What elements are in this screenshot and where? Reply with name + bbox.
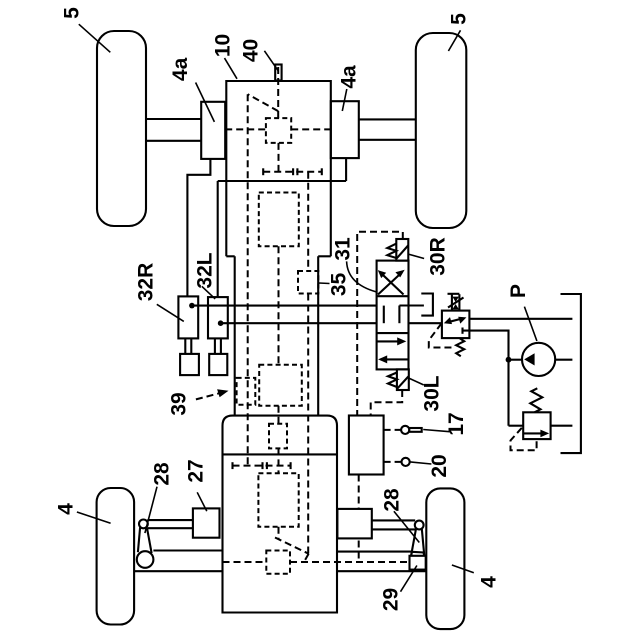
wire relief to tank bbox=[551, 425, 573, 427]
svg-text:10: 10 bbox=[211, 34, 234, 57]
relief valve spring bbox=[530, 388, 542, 412]
valve crossed-arrows position bbox=[378, 270, 405, 295]
rear axle right (wire) bbox=[337, 552, 426, 572]
spring of 30L bbox=[388, 373, 397, 388]
center shaft dashed bbox=[278, 143, 280, 172]
label 32L bbox=[194, 252, 217, 299]
svg-text:30L: 30L bbox=[421, 375, 444, 411]
flow valve adjuster symbol bbox=[448, 294, 464, 311]
rear axle dashed centerline bbox=[223, 561, 410, 563]
pilot signal wire 31 to solenoid 30R (dashed) bbox=[357, 232, 403, 416]
relief valve bbox=[523, 412, 550, 439]
wheel 4 rear-left bbox=[97, 488, 135, 625]
svg-text:4a: 4a bbox=[169, 57, 192, 81]
pto shaft dashed continue bbox=[307, 294, 309, 554]
wire controller to lever (dashed) bbox=[384, 429, 402, 431]
pump P bbox=[522, 343, 555, 376]
front axle shaft left (wire) bbox=[146, 119, 201, 141]
svg-text:20: 20 bbox=[428, 454, 451, 477]
front axle case 4a left bbox=[201, 102, 225, 159]
svg-text:4: 4 bbox=[478, 576, 501, 588]
pilot signal wire to solenoid 30L (dashed) bbox=[371, 390, 403, 416]
label 4 rear-left bbox=[55, 503, 111, 523]
shaft dashed bbox=[278, 448, 280, 473]
wire junction to relief bbox=[509, 425, 524, 427]
label 40 bbox=[240, 39, 279, 71]
shaft dashed into housing bbox=[278, 406, 280, 424]
solenoid 30R bbox=[396, 239, 408, 261]
front differential gear (dashed square) bbox=[266, 118, 291, 143]
steering cylinder 32L bbox=[208, 297, 228, 375]
label 5 front-left bbox=[61, 7, 111, 52]
front axle shaft right (wire) bbox=[359, 119, 416, 139]
center shaft dashed continue bbox=[278, 246, 280, 364]
kingpin circle left bbox=[137, 551, 154, 568]
wire controller to sensor (dashed) bbox=[384, 461, 402, 463]
svg-text:4a: 4a bbox=[338, 65, 361, 89]
flow valve pilot line (dashed) bbox=[429, 323, 452, 347]
svg-text:31: 31 bbox=[332, 237, 355, 261]
link member 29 bbox=[411, 552, 424, 556]
svg-text:35: 35 bbox=[328, 273, 351, 297]
sensor 20 bbox=[402, 458, 410, 466]
tank bracket bbox=[561, 294, 581, 453]
label 31 bbox=[332, 237, 377, 292]
svg-text:32L: 32L bbox=[194, 252, 217, 288]
directional valve 30 body bbox=[377, 261, 409, 370]
step from 4a left to pipe bbox=[187, 158, 210, 296]
rear axle housing bbox=[223, 416, 338, 613]
front axle case 4a right bbox=[331, 101, 359, 158]
valve closed-centre position symbols bbox=[384, 306, 424, 324]
label 28 right bbox=[381, 488, 420, 542]
blocked port symbol (bracket) bbox=[421, 294, 433, 316]
relief valve pilot (dashed) bbox=[511, 428, 537, 451]
right pto shaft dashed bbox=[307, 172, 309, 271]
knuckle link 28 right bbox=[411, 521, 424, 556]
small gear box (dashed) bbox=[269, 424, 287, 449]
rear gear box (dashed) bbox=[237, 378, 256, 405]
solenoid 30L bbox=[397, 369, 409, 390]
svg-text:5: 5 bbox=[448, 13, 471, 25]
label 4 rear-right bbox=[452, 565, 501, 588]
label 39 with dashed arrow bbox=[168, 389, 229, 415]
wire controller to rear steering (dashed) bbox=[358, 475, 360, 563]
shaft dashed below diff bbox=[278, 527, 280, 539]
hydraulic line A (wire 32R to valve) bbox=[192, 305, 384, 307]
label 17 bbox=[423, 412, 468, 435]
label 30R bbox=[408, 237, 449, 276]
spring of 30R bbox=[387, 244, 396, 258]
rear clutch (large dashed rect) bbox=[259, 365, 302, 406]
label 4a left bbox=[169, 57, 214, 121]
svg-text:27: 27 bbox=[185, 459, 208, 482]
svg-text:28: 28 bbox=[381, 488, 404, 512]
flow valve spring bbox=[456, 338, 464, 356]
svg-text:28: 28 bbox=[151, 462, 174, 486]
valve parallel-arrows position bbox=[378, 337, 409, 363]
rear steering cylinder 27 left end bbox=[193, 508, 220, 537]
label 28 left bbox=[145, 462, 174, 533]
svg-text:39: 39 bbox=[168, 392, 191, 415]
flow control valve bbox=[442, 311, 470, 339]
rear bevel shaft line with ticks bbox=[233, 462, 291, 469]
wire pump to junction bbox=[509, 359, 523, 361]
clutch box 35 (dashed) bbox=[298, 271, 318, 294]
rear cylinder rod right (wire) bbox=[372, 520, 415, 529]
diagonal shaft link (dashed) bbox=[275, 538, 309, 554]
lever switch 17 bbox=[401, 426, 422, 434]
label 20 bbox=[409, 454, 451, 477]
svg-text:40: 40 bbox=[240, 39, 263, 62]
label 35 bbox=[319, 273, 351, 297]
shift lever mount 40 bbox=[275, 65, 281, 81]
label 32R bbox=[135, 263, 184, 322]
gear unit (large dashed rect) bbox=[259, 193, 299, 247]
steering cylinder 32R bbox=[178, 296, 199, 375]
label 27 bbox=[185, 459, 208, 511]
rear small gear (dashed box) bbox=[266, 551, 290, 574]
controller unit bbox=[349, 416, 384, 475]
rear cylinder rod left (wire) bbox=[147, 520, 193, 528]
transmission case 10 outline bbox=[226, 81, 330, 416]
svg-text:30R: 30R bbox=[427, 237, 450, 276]
wire flow valve outlet to pump junction bbox=[463, 331, 509, 426]
svg-text:32R: 32R bbox=[135, 263, 158, 302]
hydraulic line B (wire 32L to flow valve) bbox=[221, 322, 442, 324]
label 29 bbox=[380, 566, 417, 612]
wire pump to tank bbox=[555, 359, 572, 361]
pipe to cylinder 32L (wire) bbox=[217, 181, 219, 297]
node junction bbox=[506, 357, 512, 363]
rear axle left (wire) bbox=[135, 551, 223, 572]
case flange line bbox=[218, 180, 346, 182]
internal gear shaft (dashed Z) bbox=[248, 67, 279, 466]
front axle dashed centerline bbox=[225, 128, 330, 130]
label 30L bbox=[409, 375, 444, 411]
svg-text:5: 5 bbox=[61, 7, 84, 19]
wheel 5 front-left bbox=[97, 31, 146, 226]
step on right of flange bbox=[345, 159, 347, 181]
label 4a right bbox=[338, 65, 361, 111]
wire flow valve to tank bbox=[469, 318, 572, 320]
rear differential (dashed rect) bbox=[258, 473, 298, 526]
label 5 front-right bbox=[448, 13, 471, 51]
rear steering cylinder right end bbox=[337, 509, 371, 539]
label P bbox=[507, 284, 537, 341]
svg-text:4: 4 bbox=[55, 503, 78, 515]
wheel 4 rear-right bbox=[426, 488, 464, 629]
wheel 5 front-right bbox=[416, 33, 467, 228]
knuckle link 28 left bbox=[138, 520, 152, 554]
label 10 bbox=[211, 34, 237, 79]
svg-text:P: P bbox=[507, 284, 530, 298]
front bevel shaft line with ticks bbox=[263, 168, 322, 175]
svg-text:29: 29 bbox=[380, 588, 403, 611]
